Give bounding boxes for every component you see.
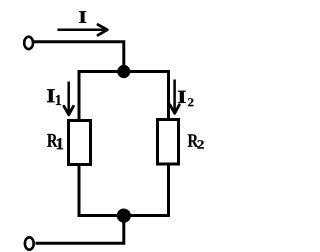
resistor R1 [69, 121, 91, 165]
label R2 [188, 134, 204, 148]
wire: left branch bottom (R1 to bottom rail) [78, 164, 81, 217]
label I [79, 11, 86, 23]
node (bottom junction) [117, 209, 131, 223]
wire: bottom lead from bottom node to terminal [36, 216, 124, 244]
label R1 [47, 134, 63, 149]
wire: top rail [79, 70, 169, 73]
current arrow I1 [64, 82, 74, 115]
node (top junction) [117, 65, 130, 78]
terminal (bottom-left output) [25, 237, 34, 249]
wire: left branch top (rail to R1) [78, 70, 81, 121]
current arrow I [58, 25, 108, 36]
wire: bottom rail [79, 214, 169, 217]
current arrow I2 [170, 80, 179, 114]
wire: top lead from terminal to top node [34, 42, 124, 68]
terminal (top-left input) [24, 37, 33, 49]
resistor R2 [158, 120, 179, 165]
wire: right branch bottom (R2 to bottom rail) [167, 164, 170, 218]
label I2 [178, 91, 194, 106]
label I1 [47, 89, 61, 105]
wire: right branch top (rail to R2) [167, 70, 170, 120]
